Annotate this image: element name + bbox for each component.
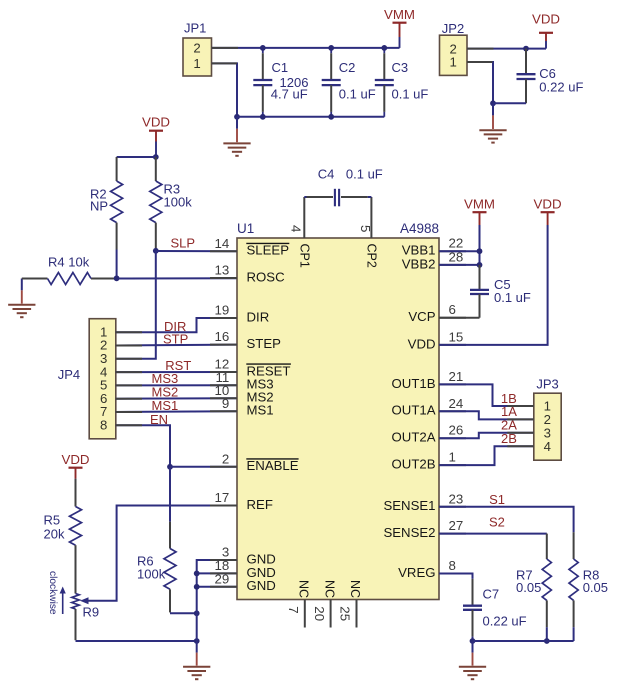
wire S2 SENSE2 to R7: [439, 533, 547, 535]
svg-text:ENABLE: ENABLE: [247, 458, 299, 473]
svg-text:1: 1: [450, 55, 457, 70]
connector pin stubs: [212, 47, 239, 49]
resistor R6: [169, 467, 171, 522]
wire JP1 pin1 down: [212, 63, 238, 116]
svg-text:R4 10k: R4 10k: [48, 255, 90, 270]
node R6 to gnd bus: [194, 610, 200, 616]
U1 bottom pin 25 NC: [356, 600, 358, 628]
U1 left pin stubs and numbers: [210, 250, 237, 252]
svg-text:0.1 uF: 0.1 uF: [494, 290, 531, 305]
wire JP2 pin1 down: [467, 62, 493, 103]
node gnd bus bottom: [194, 638, 200, 644]
svg-text:20: 20: [312, 606, 327, 621]
U1 bottom pin 20 NC: [330, 600, 332, 628]
svg-text:VDD: VDD: [532, 12, 560, 27]
resistor R3: [155, 157, 157, 181]
capacitor C3: [383, 48, 385, 53]
svg-text:EN: EN: [150, 412, 168, 427]
svg-text:C1: C1: [272, 60, 289, 75]
capacitor C7: [472, 579, 474, 606]
svg-text:17: 17: [215, 490, 230, 505]
svg-text:20k: 20k: [44, 526, 65, 541]
svg-text:26: 26: [449, 423, 464, 438]
wire VBB2: [439, 264, 480, 266]
svg-text:STEP: STEP: [247, 336, 282, 351]
svg-text:100k: 100k: [137, 567, 166, 582]
wire JP2 pin2: [467, 48, 546, 50]
svg-text:MS1: MS1: [152, 398, 179, 413]
node C7 bottom: [470, 638, 476, 644]
potentiometer wiper arrow: [80, 597, 89, 604]
svg-text:VDD: VDD: [408, 336, 436, 351]
wire EN to ENABLE pin: [170, 466, 237, 468]
wire VBB1: [439, 250, 480, 252]
svg-text:NC: NC: [348, 580, 362, 598]
svg-text:5: 5: [358, 225, 373, 232]
wire OUT2B to JP3 pin4: [439, 446, 534, 465]
svg-text:CP1: CP1: [297, 244, 311, 268]
capacitor C1: [262, 48, 264, 53]
svg-text:4: 4: [289, 225, 304, 232]
svg-text:13: 13: [215, 263, 230, 278]
node R2 bottom junction: [114, 275, 120, 281]
svg-text:25: 25: [338, 606, 353, 621]
wire DIR: [116, 318, 237, 332]
svg-text:0.22 uF: 0.22 uF: [539, 79, 583, 94]
node bus pin18: [194, 571, 200, 577]
capacitor C4: [304, 196, 306, 198]
svg-text:JP4: JP4: [58, 367, 80, 382]
svg-text:GND: GND: [247, 578, 276, 593]
U1 right pin stubs and numbers: [439, 250, 466, 252]
svg-text:VMM: VMM: [464, 197, 495, 212]
svg-text:C2: C2: [339, 60, 356, 75]
wire R9 bottom to gnd bus: [76, 640, 197, 642]
svg-text:8: 8: [449, 558, 456, 573]
svg-text:C7: C7: [483, 586, 500, 601]
svg-text:REF: REF: [247, 497, 273, 512]
svg-text:4: 4: [544, 439, 551, 454]
ground bottom right: [472, 641, 474, 653]
ground left of R4: [21, 279, 23, 291]
connector JP2: [440, 35, 468, 75]
wire OUT1B to JP3 pin1: [439, 384, 534, 406]
svg-text:OUT1B: OUT1B: [392, 376, 436, 391]
svg-text:VBB2: VBB2: [402, 256, 436, 271]
svg-text:0.22 uF: 0.22 uF: [483, 613, 527, 628]
svg-text:SLEEP: SLEEP: [247, 243, 290, 258]
svg-text:VMM: VMM: [384, 7, 415, 22]
op-amp U1 A4988 body: [237, 238, 439, 600]
svg-text:NC: NC: [322, 580, 336, 598]
wire GND pin3 to bus: [197, 560, 237, 641]
svg-text:SENSE1: SENSE1: [383, 498, 435, 513]
connector JP3: [534, 393, 561, 460]
svg-text:OUT2B: OUT2B: [392, 457, 436, 472]
svg-text:0.05: 0.05: [583, 580, 608, 595]
svg-text:0.1 uF: 0.1 uF: [339, 87, 376, 102]
svg-text:16: 16: [215, 329, 230, 344]
svg-text:8: 8: [100, 418, 107, 433]
node bus pin29: [194, 584, 200, 590]
arrow clockwise: [62, 591, 64, 614]
U1 top pin 5 CP2: [370, 197, 372, 238]
svg-text:DIR: DIR: [247, 309, 270, 324]
wire MS3: [116, 384, 237, 386]
svg-text:CP2: CP2: [364, 244, 378, 268]
wire GND pin18: [197, 572, 237, 574]
svg-text:SLP: SLP: [171, 236, 196, 251]
node SLP junction: [153, 248, 159, 254]
svg-text:1: 1: [193, 56, 200, 71]
ground under JP2: [492, 103, 494, 115]
wire sense gnd rail: [473, 640, 574, 642]
svg-text:2: 2: [193, 41, 200, 56]
wire RST: [116, 371, 237, 373]
svg-text:VREG: VREG: [398, 565, 435, 580]
svg-text:0.05: 0.05: [516, 580, 541, 595]
svg-text:NC: NC: [297, 580, 311, 598]
resistor R5: [75, 479, 77, 507]
svg-text:STP: STP: [163, 331, 188, 346]
svg-text:19: 19: [215, 303, 230, 318]
svg-text:OUT1A: OUT1A: [392, 403, 436, 418]
svg-text:VCP: VCP: [408, 309, 435, 324]
wire VREG to C7: [439, 574, 473, 579]
node C6 top junction: [523, 46, 529, 52]
svg-text:S2: S2: [489, 515, 505, 530]
capacitor C6: [525, 49, 527, 75]
connector JP4: [89, 319, 116, 439]
svg-text:R9: R9: [83, 605, 100, 620]
svg-text:MS1: MS1: [247, 403, 274, 418]
svg-text:VDD: VDD: [142, 114, 170, 129]
svg-text:21: 21: [449, 369, 464, 384]
svg-text:C3: C3: [392, 60, 409, 75]
svg-text:S1: S1: [489, 492, 505, 507]
svg-text:C4: C4: [318, 166, 335, 181]
svg-text:9: 9: [222, 396, 229, 411]
node R7 bottom: [544, 638, 550, 644]
svg-text:JP1: JP1: [184, 21, 206, 36]
wire MS1: [116, 410, 237, 413]
node JP1 gnd junction: [234, 114, 240, 120]
svg-text:15: 15: [449, 329, 464, 344]
wire SLP down to JP4 pin3: [116, 251, 156, 359]
wire VMM down to C5: [479, 225, 481, 266]
svg-text:clockwise: clockwise: [47, 571, 58, 615]
wire C6 bottom: [493, 102, 526, 104]
svg-text:4.7 uF: 4.7 uF: [271, 87, 308, 102]
node VBB2: [477, 262, 483, 268]
svg-text:JP3: JP3: [536, 376, 558, 391]
wire REF left and down: [88, 506, 237, 601]
capacitor C2: [330, 48, 332, 53]
svg-text:1: 1: [449, 450, 456, 465]
node VDD split: [153, 154, 159, 160]
connector JP1: [183, 38, 212, 76]
node EN junction: [167, 464, 173, 470]
svg-text:NP: NP: [90, 198, 108, 213]
capacitor C5: [479, 265, 481, 290]
ground under JP1: [236, 117, 238, 129]
wire OUT2A to JP3 pin3: [439, 433, 534, 438]
svg-text:A4988: A4988: [400, 221, 439, 236]
node JP2 gnd junction: [490, 100, 496, 106]
wire VDD to R2: [117, 156, 156, 158]
wire EN: [116, 425, 170, 467]
svg-text:U1: U1: [237, 221, 254, 236]
svg-text:0.1 uF: 0.1 uF: [392, 87, 429, 102]
wire caps bottom rail: [237, 116, 384, 118]
svg-text:VDD: VDD: [61, 452, 89, 467]
svg-text:JP2: JP2: [442, 21, 464, 36]
wire R4 to ROSC pin: [117, 277, 237, 279]
ground center bottom: [196, 641, 198, 653]
resistor R2: [116, 157, 118, 181]
node VBB1: [477, 248, 483, 254]
svg-text:OUT2A: OUT2A: [392, 430, 436, 445]
resistor R7: [542, 559, 551, 600]
svg-text:23: 23: [449, 491, 464, 506]
wire GND pin29: [197, 586, 237, 588]
svg-text:SENSE2: SENSE2: [383, 525, 435, 540]
svg-text:7: 7: [286, 606, 301, 613]
svg-text:6: 6: [449, 302, 456, 317]
U1 bottom pin 7 NC: [304, 600, 306, 628]
U1 top pin 4 CP1: [303, 197, 305, 238]
resistor R8: [569, 559, 578, 600]
svg-text:14: 14: [215, 236, 230, 251]
svg-text:29: 29: [215, 571, 230, 586]
wire OUT1A to JP3 pin2: [439, 411, 534, 419]
potentiometer R9: [72, 594, 79, 610]
resistor R4: [22, 278, 48, 280]
wire SLP to SLEEP pin: [156, 250, 237, 252]
svg-text:100k: 100k: [164, 195, 193, 210]
wire STP: [116, 344, 237, 347]
svg-text:VDD: VDD: [534, 197, 562, 212]
svg-text:0.1 uF: 0.1 uF: [346, 166, 383, 181]
wire S1 SENSE1 to R8: [439, 507, 574, 532]
wire JP1 pin2 to caps rail: [212, 47, 400, 49]
wire VDD to pin15: [439, 225, 548, 345]
svg-text:ROSC: ROSC: [247, 269, 286, 284]
svg-text:24: 24: [449, 396, 464, 411]
wire MS2: [116, 397, 237, 399]
svg-text:2: 2: [222, 451, 229, 466]
svg-text:27: 27: [449, 518, 464, 533]
